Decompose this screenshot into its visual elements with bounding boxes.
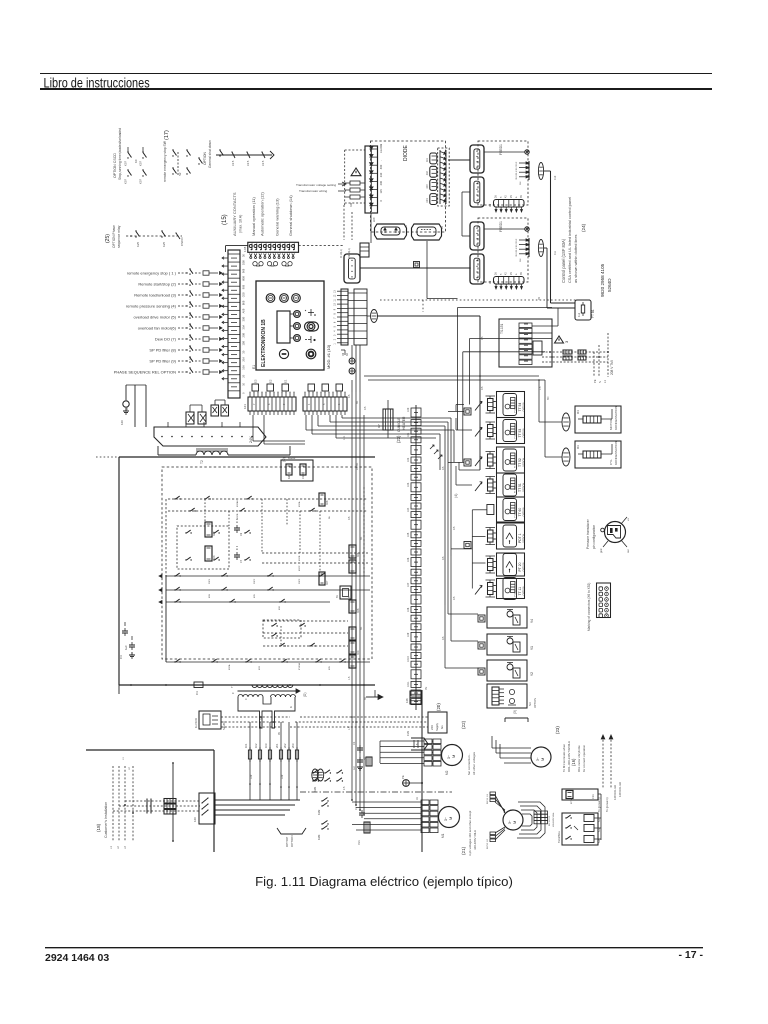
svg-text:10B: 10B bbox=[242, 341, 246, 346]
svg-text:X1:5: X1:5 bbox=[246, 160, 250, 166]
relay K22 row bbox=[565, 825, 601, 833]
strip pin arrows left side bbox=[222, 257, 228, 380]
feed group dashed frame F2 bbox=[478, 218, 528, 282]
motor M2 circle bbox=[442, 745, 463, 776]
relay rung labels bbox=[209, 500, 331, 670]
trunk horizontal to heater wires bbox=[364, 375, 545, 381]
supply wires to 24V bus bbox=[126, 385, 146, 427]
solenoid module Y2 box bbox=[487, 660, 527, 681]
E-stop aux boxes above strip 1B bbox=[252, 379, 289, 391]
svg-text:GN: GN bbox=[520, 181, 522, 185]
svg-text:Automatic operation (12): Automatic operation (12) bbox=[260, 192, 265, 236]
heater element R4 bbox=[578, 409, 612, 423]
rectifier bottom connector CN1 bbox=[375, 224, 409, 239]
svg-text:1uF: 1uF bbox=[124, 645, 128, 650]
svg-text:0.5 BK: 0.5 BK bbox=[356, 462, 359, 470]
svg-text:230: 230 bbox=[379, 172, 383, 177]
svg-text:Pt 1000: Pt 1000 bbox=[514, 509, 517, 517]
solenoid module Y4 box bbox=[487, 607, 527, 628]
svg-text:CYL: CYL bbox=[609, 459, 613, 465]
svg-text:(25): (25) bbox=[105, 234, 111, 243]
svg-text:3~: 3~ bbox=[508, 820, 512, 824]
svg-text:To (powers): To (powers) bbox=[605, 797, 609, 812]
svg-text:OPTION: OPTION bbox=[290, 835, 294, 847]
svg-text:S3: S3 bbox=[528, 702, 532, 706]
feed connector upper F1 bbox=[470, 145, 484, 173]
sensor module TT 54 connector bbox=[486, 396, 497, 413]
heater box R3 bbox=[575, 441, 621, 468]
elektronikon icon plus bbox=[305, 309, 316, 316]
svg-text:E2: E2 bbox=[269, 379, 273, 383]
small terminal strip F2 bbox=[488, 272, 524, 289]
right arrow symbol near T1 bbox=[366, 690, 383, 700]
svg-text:KM1: KM1 bbox=[313, 786, 317, 792]
rectifier connector cells X02 bbox=[427, 153, 437, 205]
header rule top bbox=[40, 73, 712, 75]
feeder fuse group 2 bbox=[275, 722, 299, 800]
svg-text:K25: K25 bbox=[162, 241, 166, 247]
svg-text:DIODE: DIODE bbox=[403, 145, 409, 162]
capacitor block C2 bbox=[354, 806, 370, 845]
column X52 labels bbox=[407, 407, 410, 687]
svg-text:DOL-400-240V 50/60Hz: DOL-400-240V 50/60Hz bbox=[567, 740, 571, 772]
svg-text:1F3: 1F3 bbox=[264, 743, 268, 748]
relay K24 row bbox=[565, 836, 601, 844]
bracket (3) above DOL motor bbox=[505, 710, 528, 722]
connector column X52 bbox=[411, 405, 421, 710]
sensor module TT 53 connector bbox=[486, 422, 497, 439]
contact K25a bbox=[130, 230, 140, 247]
svg-text:N: N bbox=[598, 381, 602, 383]
svg-text:OPTION Phase: OPTION Phase bbox=[112, 225, 116, 248]
feed trunk wires right bbox=[544, 171, 576, 308]
svg-text:3~: 3~ bbox=[444, 817, 448, 821]
B junction box 1 bbox=[464, 408, 471, 415]
svg-text:A08: A08 bbox=[242, 308, 246, 313]
svg-text:NELBO: NELBO bbox=[222, 721, 226, 730]
svg-text:M08: M08 bbox=[242, 276, 246, 282]
fuse FT B1 box bbox=[575, 300, 595, 320]
svg-text:1X9: 1X9 bbox=[407, 632, 410, 637]
svg-text:Supply: Supply bbox=[435, 722, 439, 731]
cubicle heater resistor R7 bbox=[377, 400, 393, 438]
K25 auxiliary box bbox=[281, 457, 313, 481]
svg-text:ELEKTRONIKON 1B: ELEKTRONIKON 1B bbox=[261, 319, 267, 367]
sensor module TT 60 box bbox=[497, 497, 525, 522]
sensor module PT 20 box bbox=[497, 553, 525, 576]
capacitor block C1 bbox=[352, 741, 372, 770]
sensor module PDT 1 inner bbox=[503, 525, 517, 547]
svg-text:K03: K03 bbox=[213, 555, 216, 560]
svg-text:T1: T1 bbox=[230, 684, 234, 688]
svg-text:K02B: K02B bbox=[237, 513, 239, 519]
bolt terminal F2 bbox=[484, 227, 529, 231]
X4 bottom lead labels bbox=[341, 350, 349, 356]
transformer voltage setting resistors bbox=[345, 181, 365, 207]
dashed link K-CSCD bbox=[221, 717, 290, 727]
svg-text:Y4: Y4 bbox=[530, 619, 534, 623]
nested feeder corners right bbox=[458, 308, 553, 463]
svg-text:TT 54: TT 54 bbox=[518, 403, 522, 412]
svg-text:Transformator wiring: Transformator wiring bbox=[299, 189, 328, 193]
star delta leads upper left bbox=[487, 792, 505, 813]
svg-text:FT B1: FT B1 bbox=[591, 309, 595, 318]
solenoid module Y4 coil bbox=[507, 610, 520, 626]
strip X1 pin arrows below bbox=[250, 254, 295, 259]
wires F21 to starters bbox=[215, 800, 300, 815]
wires trunk to M2 stack bbox=[380, 741, 424, 763]
wire ladder X4 to bus bbox=[348, 289, 367, 345]
capacitor pair on rung 2 bbox=[234, 546, 243, 563]
switch S1 group option CSCD bbox=[124, 147, 147, 184]
svg-text:Customer's Installation: Customer's Installation bbox=[104, 802, 108, 838]
relay coil K06 bbox=[349, 600, 356, 613]
cable boot F2 bbox=[538, 240, 543, 257]
sensor module TT 51 connector bbox=[486, 477, 497, 494]
svg-text:ALARM: ALARM bbox=[379, 143, 383, 153]
svg-text:M1: M1 bbox=[441, 833, 445, 838]
supply block side plate bbox=[533, 341, 542, 355]
svg-text:OPTION: OPTION bbox=[523, 483, 526, 492]
svg-text:gnd: gnd bbox=[599, 548, 603, 553]
svg-text:0V: 0V bbox=[278, 732, 281, 735]
sensor module TT 51 inner bbox=[503, 474, 517, 496]
svg-text:K04: K04 bbox=[357, 650, 360, 655]
motor M2 feeder vertical bbox=[421, 690, 423, 852]
svg-text:Pressure transducer: Pressure transducer bbox=[586, 518, 590, 549]
supply block outline bbox=[499, 319, 552, 367]
svg-text:908: 908 bbox=[242, 268, 246, 273]
svg-text:(D): (D) bbox=[303, 693, 307, 697]
svg-text:E09: E09 bbox=[373, 217, 376, 222]
relay logic dashed frame bbox=[162, 467, 372, 659]
svg-text:R3: R3 bbox=[576, 445, 580, 449]
svg-text:K05: K05 bbox=[357, 552, 360, 557]
feed connector upper F2 bbox=[470, 222, 484, 250]
diode bridge zigzag bbox=[440, 150, 446, 204]
svg-text:SP PD filter (8): SP PD filter (8) bbox=[149, 348, 176, 353]
svg-text:DPTOP: DPTOP bbox=[285, 837, 289, 847]
svg-text:FM1: FM1 bbox=[358, 840, 361, 845]
phase labels PE N L bbox=[593, 379, 607, 383]
elektronikon display bbox=[277, 311, 290, 343]
svg-text:KM3: KM3 bbox=[317, 834, 321, 840]
svg-text:(15): (15) bbox=[222, 214, 228, 225]
svg-text:K06: K06 bbox=[357, 608, 360, 613]
contact pair KM2 left bbox=[317, 798, 329, 816]
customer feeder vertical line bbox=[172, 763, 174, 841]
svg-text:OPTION: OPTION bbox=[523, 428, 526, 437]
junction dots phase leads bbox=[549, 351, 609, 358]
svg-text:C2: C2 bbox=[354, 806, 358, 810]
solenoid module Y1 B box bbox=[478, 642, 485, 649]
junction arrows bundle bbox=[430, 445, 442, 459]
diode bridge dashed pocket bbox=[438, 148, 450, 206]
sensor module TT 52 connector bbox=[486, 452, 497, 469]
sensor module PDT 1 box bbox=[497, 523, 525, 549]
svg-text:K25: K25 bbox=[136, 241, 140, 247]
svg-text:Y2: Y2 bbox=[530, 672, 534, 676]
svg-text:fan: fan bbox=[440, 725, 444, 729]
connector strip X4 vertical bbox=[334, 289, 349, 345]
svg-text:TT 53: TT 53 bbox=[518, 429, 522, 438]
relay grid solid rails bbox=[166, 487, 370, 662]
svg-text:(18): (18) bbox=[96, 823, 101, 832]
end connector shutdown bbox=[270, 151, 274, 159]
main feeder trunk center bbox=[352, 392, 364, 815]
svg-text:OPTION: OPTION bbox=[523, 507, 526, 516]
svg-text:-: - bbox=[380, 160, 383, 161]
svg-text:1X5: 1X5 bbox=[407, 532, 410, 537]
svg-text:Fig. 1.11 Diagrama eléctrico (: Fig. 1.11 Diagrama eléctrico (ejemplo tí… bbox=[255, 874, 513, 889]
svg-text:1X6: 1X6 bbox=[405, 698, 409, 703]
24V supply box (20) bbox=[428, 712, 447, 733]
trunk junction dots center bbox=[351, 716, 361, 811]
svg-text:MOTOR: MOTOR bbox=[609, 418, 613, 430]
svg-text:Y1: Y1 bbox=[530, 646, 534, 650]
phase relay box CR top bbox=[562, 789, 598, 804]
switch group remote emergency stop bbox=[172, 149, 202, 176]
svg-text:(16): (16) bbox=[571, 758, 576, 766]
svg-text:M2: M2 bbox=[445, 770, 449, 775]
wire trunk elektronikon to lower right bbox=[352, 345, 360, 392]
sensor module TT 52 inner bbox=[503, 449, 517, 471]
svg-text:M: M bbox=[512, 821, 517, 824]
svg-text:20B: 20B bbox=[242, 333, 246, 338]
svg-text:overload drive motor (5): overload drive motor (5) bbox=[134, 315, 177, 320]
svg-text:30C3: 30C3 bbox=[299, 578, 301, 584]
svg-text:(17): (17) bbox=[164, 130, 170, 140]
heater element R3 bbox=[578, 444, 612, 458]
svg-text:BN: BN bbox=[547, 396, 550, 400]
sensor module TT 51 box bbox=[497, 473, 525, 497]
wire tap strip to X5 bbox=[370, 213, 372, 243]
svg-text:X1:5: X1:5 bbox=[231, 160, 235, 166]
solenoid module Y1 box bbox=[487, 634, 527, 655]
feeder fuse group 1 bbox=[244, 722, 272, 800]
rail end arrows left bbox=[159, 574, 162, 603]
transducer leads and labels bbox=[599, 517, 630, 553]
svg-text:Pt 1000: Pt 1000 bbox=[514, 485, 517, 493]
svg-text:(4): (4) bbox=[454, 494, 458, 498]
dashed boundary left of rectifier bbox=[345, 150, 365, 205]
sensor module PT 20 inner bbox=[503, 554, 517, 576]
relay coil K04 b bbox=[349, 641, 356, 654]
svg-text:BK: BK bbox=[364, 696, 367, 700]
aux boxes above strip 1C bbox=[308, 384, 343, 391]
cable boot R3 bbox=[562, 448, 570, 466]
svg-text:M: M bbox=[540, 758, 545, 761]
svg-text:remote energency stop ( 1 ): remote energency stop ( 1 ) bbox=[127, 271, 177, 276]
panel boundary bottom-left bbox=[86, 750, 214, 852]
terminal strip 1C bbox=[303, 392, 347, 415]
svg-text:30A: 30A bbox=[242, 325, 246, 330]
svg-text:2F1: 2F1 bbox=[275, 743, 279, 748]
wires trunk to solenoids bbox=[445, 512, 478, 668]
pin hooks below strip X1 bbox=[253, 262, 292, 267]
svg-text:T2: T2 bbox=[200, 460, 204, 464]
svg-text:X11: X11 bbox=[554, 250, 557, 255]
svg-text:30C2: 30C2 bbox=[254, 578, 256, 584]
junction dot M trunk bbox=[421, 782, 423, 784]
CSA dotted boundary vertical left bbox=[422, 300, 424, 312]
svg-text:K07: K07 bbox=[124, 161, 128, 166]
svg-text:OPTION: OPTION bbox=[523, 534, 526, 543]
transformer T1 primary winding bbox=[252, 685, 293, 688]
svg-text:2924 1464 03: 2924 1464 03 bbox=[45, 952, 109, 964]
svg-text:24V: 24V bbox=[430, 725, 434, 730]
customer fuse marks bbox=[147, 799, 151, 814]
sensor module TT 11 inner bbox=[503, 578, 517, 600]
svg-text:(max. 10 A): (max. 10 A) bbox=[239, 215, 243, 233]
elektronikon scroll keys bbox=[305, 322, 319, 331]
wires to M1 stack bbox=[352, 802, 421, 830]
contact K1 on shutdown wire bbox=[219, 149, 220, 150]
star delta motor circle bbox=[503, 809, 523, 830]
capacitor pair on rung 1 bbox=[234, 519, 243, 536]
svg-text:115: 115 bbox=[379, 189, 383, 194]
svg-text:PHASE SEQUENCE REL OPTION: PHASE SEQUENCE REL OPTION bbox=[114, 370, 176, 375]
wire rectifier to feed group bbox=[448, 159, 470, 161]
wire bus to inductor bbox=[158, 446, 290, 455]
svg-text:Pt 1000: Pt 1000 bbox=[514, 404, 517, 412]
relay coil K03 left bbox=[205, 546, 212, 561]
wire bottom rail through T1 bbox=[119, 685, 310, 694]
svg-text:X02: X02 bbox=[427, 170, 429, 175]
svg-text:K02A: K02A bbox=[298, 501, 301, 507]
connector X5 top small bbox=[360, 243, 369, 257]
svg-text:K09: K09 bbox=[350, 202, 353, 207]
tap select arrows bbox=[338, 182, 346, 191]
svg-text:1F1: 1F1 bbox=[244, 743, 248, 748]
elektronikon module outline bbox=[256, 281, 324, 370]
dash-dot separator line bbox=[300, 791, 452, 793]
svg-text:(23): (23) bbox=[555, 726, 560, 734]
star delta leads lower left bbox=[487, 827, 505, 849]
sensor module TT 60 inner bbox=[503, 499, 517, 521]
feed connector lower F2 bbox=[470, 254, 484, 284]
dptop option bracket bbox=[277, 828, 306, 847]
svg-text:1X7: 1X7 bbox=[407, 582, 410, 587]
terminal strip X1 main vertical bbox=[228, 250, 246, 398]
svg-text:BK: BK bbox=[356, 400, 359, 404]
svg-text:C6 10(-1): C6 10(-1) bbox=[348, 248, 351, 258]
svg-text:TT 52: TT 52 bbox=[518, 458, 522, 467]
junction B box top bbox=[414, 262, 420, 268]
svg-text:(20): (20) bbox=[436, 703, 441, 711]
relay coil K09 c bbox=[349, 655, 356, 668]
dashed control lines to 20 box bbox=[290, 717, 428, 727]
svg-text:PE: PE bbox=[593, 379, 597, 383]
svg-text:K02A: K02A bbox=[228, 664, 231, 670]
svg-text:Control panel (1SF 83A): Control panel (1SF 83A) bbox=[561, 238, 566, 283]
svg-text:BK: BK bbox=[360, 626, 363, 630]
svg-text:E1: E1 bbox=[284, 379, 288, 383]
diode column with taps bbox=[370, 143, 384, 212]
svg-text:1uF: 1uF bbox=[353, 765, 356, 770]
svg-text:1X10: 1X10 bbox=[407, 656, 410, 662]
svg-text:K02C: K02C bbox=[299, 565, 301, 571]
phase dashed leads bbox=[542, 333, 608, 377]
terminal strip 1B bbox=[243, 392, 296, 415]
svg-text:908: 908 bbox=[242, 284, 246, 289]
svg-text:OPTION: OPTION bbox=[523, 458, 526, 467]
dashed arrows to powers bbox=[597, 735, 613, 812]
svg-text:K07: K07 bbox=[326, 580, 329, 585]
dashed drop lines below rectifier left bbox=[340, 205, 352, 258]
elektronikon top buttons bbox=[266, 294, 300, 303]
CSA dotted boundary horizontal bbox=[380, 299, 590, 301]
relay contacts scatter bbox=[174, 496, 345, 663]
wire supply block to fuse FT B1 bbox=[532, 308, 575, 333]
sensor module TT 54 inner bbox=[503, 394, 517, 416]
wire phase sequence dashed bbox=[126, 235, 182, 237]
timer box B24 bbox=[336, 586, 351, 599]
capacitor row small left bbox=[122, 622, 128, 636]
warning triangle rectifier bbox=[351, 168, 361, 176]
svg-text:PE: PE bbox=[425, 686, 428, 690]
svg-text:AUXILIARY CONTACTS: AUXILIARY CONTACTS bbox=[232, 192, 237, 236]
svg-text:(22): (22) bbox=[461, 720, 466, 729]
cable boot F1 bbox=[538, 163, 543, 180]
svg-text:as shown within dotted lines: as shown within dotted lines bbox=[573, 235, 578, 283]
svg-text:1M1: 1M1 bbox=[406, 730, 410, 736]
svg-text:1X9: 1X9 bbox=[250, 774, 253, 779]
svg-text:out: out bbox=[626, 549, 630, 553]
svg-text:General warning (13): General warning (13) bbox=[275, 198, 280, 236]
svg-text:X04: X04 bbox=[427, 198, 429, 203]
second control transformer pair bbox=[211, 400, 229, 416]
svg-text:1X1: 1X1 bbox=[407, 432, 410, 437]
svg-text:FEED1: FEED1 bbox=[499, 221, 503, 232]
svg-text:MOD. #1 (10): MOD. #1 (10) bbox=[326, 344, 331, 369]
svg-text:1x1: 1x1 bbox=[577, 312, 581, 317]
terminal CSCD bbox=[175, 232, 184, 246]
svg-text:1X8 DOL GR: 1X8 DOL GR bbox=[618, 782, 622, 797]
ferrite pair on phase leads bbox=[563, 350, 586, 360]
svg-text:OPTION: OPTION bbox=[523, 402, 526, 411]
svg-text:KONDENSATION: KONDENSATION bbox=[614, 441, 618, 465]
contact K25b bbox=[161, 230, 166, 247]
svg-text:M: M bbox=[451, 755, 456, 758]
K-CSCD relay box bbox=[194, 711, 226, 730]
star delta terminal grid bbox=[534, 811, 555, 827]
customer installation label bbox=[96, 802, 108, 838]
svg-text:W2 U2 V2: W2 U2 V2 bbox=[549, 815, 551, 826]
relay grid dashed vertical ties bbox=[205, 499, 320, 646]
left input labels and wiring rows bbox=[127, 268, 222, 275]
inductor L1 bbox=[196, 449, 228, 455]
terminal strip X1 top bbox=[248, 242, 299, 252]
svg-text:K07: K07 bbox=[139, 161, 143, 166]
wires to heater boxes bbox=[459, 330, 562, 470]
svg-text:Dew DO (7): Dew DO (7) bbox=[155, 337, 177, 342]
svg-text:OPTION: OPTION bbox=[533, 698, 537, 708]
svg-text:Pt 1000: Pt 1000 bbox=[514, 460, 517, 468]
shield ground symbol 1 bbox=[349, 358, 355, 364]
svg-text:Transformator voltage setting: Transformator voltage setting bbox=[296, 183, 336, 187]
svg-text:OPTION: OPTION bbox=[523, 562, 526, 571]
svg-text:10A: 10A bbox=[242, 365, 246, 370]
small terminal strip F1 bbox=[488, 195, 524, 212]
svg-text:Pt 1000: Pt 1000 bbox=[514, 430, 517, 438]
svg-text:(23): (23) bbox=[396, 435, 401, 443]
svg-text:20A: 20A bbox=[242, 357, 246, 362]
svg-text:OPTION CSCD: OPTION CSCD bbox=[113, 153, 117, 178]
svg-text:200: 200 bbox=[379, 180, 383, 185]
transformer T1 secondary body bbox=[238, 695, 296, 728]
svg-text:pin configuration: pin configuration bbox=[592, 525, 596, 549]
